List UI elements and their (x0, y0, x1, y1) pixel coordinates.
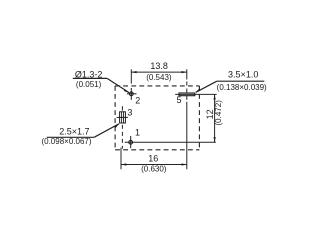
dimension 16 line (121, 164, 187, 166)
dimension 13.8 extension line (pin 2 column) (130, 69, 132, 83)
pin 5 column centerline (186, 69, 188, 169)
pin 3 rectangular hole 2.5x1.7 (hatched slot symbol) (117, 112, 128, 123)
hole label 1.3-2 leader (73, 78, 129, 92)
dimension 13.8 line (131, 71, 187, 73)
svg-text:(0.630): (0.630) (141, 165, 167, 174)
dimension 16 arrowheads (121, 163, 126, 165)
pin 2 hole (circle with centerline cross) (127, 88, 137, 100)
dimension 12 arrowheads (214, 94, 216, 99)
svg-text:(0.472): (0.472) (214, 100, 223, 126)
svg-text:16: 16 (148, 153, 158, 163)
pin 5 slot 3.5x1.0 (179, 93, 195, 96)
pin 3 centerline dashes (121, 106, 123, 148)
svg-text:3: 3 (127, 107, 132, 117)
slot label 3.5x1.0 leader (196, 81, 264, 92)
dimension 13.8 arrowheads (131, 71, 136, 73)
pin 5 row centerline / extension to 12 dim (175, 93, 217, 95)
svg-text:(0.543): (0.543) (146, 73, 172, 82)
dimension 12 line (214, 94, 216, 142)
svg-text:(0.098×0.067): (0.098×0.067) (41, 137, 91, 146)
svg-text:1: 1 (135, 128, 140, 138)
pin 1 row centerline / extension to 12 dim (125, 141, 216, 143)
svg-text:3.5×1.0: 3.5×1.0 (228, 69, 258, 79)
pin 1 hole (circle with centerline cross) (129, 136, 133, 148)
svg-text:(0.051): (0.051) (76, 80, 102, 89)
svg-text:5: 5 (176, 95, 181, 105)
svg-text:13.8: 13.8 (150, 61, 168, 71)
dimension 16 extension lines (120, 148, 122, 170)
svg-text:2.5×1.7: 2.5×1.7 (59, 127, 89, 137)
svg-text:(0.138×0.039): (0.138×0.039) (217, 83, 267, 92)
svg-text:2: 2 (135, 95, 140, 105)
component outline (dashed body rectangle, bottom view) (115, 86, 199, 150)
slot label 2.5x1.7 leader (47, 124, 119, 138)
svg-text:Ø1.3-2: Ø1.3-2 (75, 69, 103, 79)
